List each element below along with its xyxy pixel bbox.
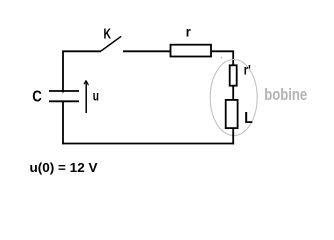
wire resistor to corner [212, 50, 234, 52]
inductor L body [226, 100, 238, 128]
svg-text:L: L [244, 110, 253, 127]
svg-text:u(0) = 12 V: u(0) = 12 V [30, 160, 98, 175]
ellipse bobine outline [210, 60, 257, 136]
wire r' to L [232, 86, 234, 100]
svg-text:u: u [93, 89, 99, 104]
svg-text:bobine: bobine [264, 86, 307, 104]
arrow u shaft [85, 81, 87, 114]
wire left vertical lower [62, 101, 64, 144]
svg-text:r: r [186, 24, 192, 40]
resistor r' body [230, 65, 237, 85]
svg-text:r': r' [244, 62, 251, 78]
capacitor C bottom plate [49, 100, 79, 102]
svg-text:C: C [32, 89, 42, 106]
svg-text:K: K [104, 27, 112, 43]
resistor r body [171, 45, 212, 57]
wire L to bottom [232, 128, 234, 144]
switch K blade [101, 36, 121, 51]
wire top-left horizontal [62, 50, 101, 52]
arrow u head [84, 80, 89, 85]
wire left vertical upper [62, 51, 64, 93]
stray dot [221, 57, 222, 58]
capacitor C top plate [49, 90, 79, 92]
wire bottom horizontal [62, 143, 234, 145]
wire right vertical into r' [232, 51, 234, 66]
wire switch to resistor [123, 50, 170, 52]
